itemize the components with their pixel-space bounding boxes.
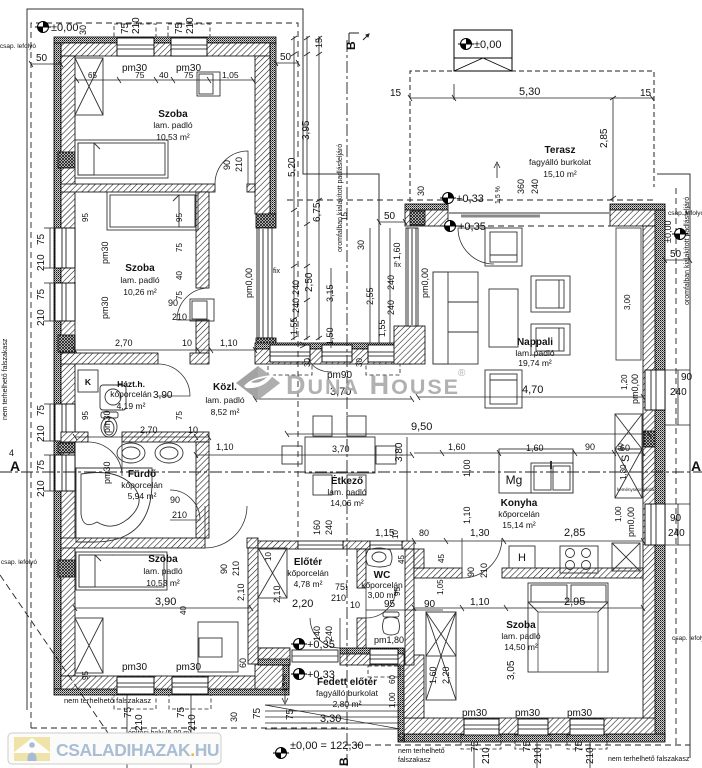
svg-text:50: 50: [384, 211, 396, 222]
svg-text:oromfalban kialakított padlásf: oromfalban kialakított padlásfeljáró: [337, 144, 344, 252]
svg-text:lam. padló: lam. padló: [501, 631, 540, 641]
svg-text:B: B: [344, 41, 358, 50]
svg-text:2,85: 2,85: [599, 128, 610, 148]
svg-text:pm30: pm30: [567, 708, 592, 719]
svg-text:2,80 m²: 2,80 m²: [333, 699, 362, 709]
svg-text:240: 240: [386, 275, 396, 290]
svg-text:210: 210: [36, 254, 47, 271]
svg-text:5,30: 5,30: [519, 86, 540, 98]
svg-text:75: 75: [175, 291, 184, 300]
svg-text:lam. padló: lam. padló: [327, 487, 366, 497]
svg-text:Szoba: Szoba: [506, 620, 536, 631]
svg-text:30: 30: [397, 733, 407, 743]
svg-text:pm30: pm30: [176, 63, 201, 74]
svg-text:95: 95: [81, 671, 90, 680]
svg-text:Közl.: Közl.: [213, 382, 237, 393]
svg-text:240: 240: [386, 300, 396, 315]
svg-text:75: 75: [522, 740, 533, 752]
svg-text:75: 75: [36, 288, 47, 300]
svg-text:+0,33: +0,33: [456, 193, 484, 205]
svg-text:3,70: 3,70: [332, 444, 350, 454]
svg-text:15: 15: [640, 88, 652, 99]
svg-text:1,10: 1,10: [470, 597, 490, 608]
svg-text:5,20: 5,20: [287, 157, 298, 177]
svg-text:15: 15: [314, 38, 324, 48]
svg-text:210: 210: [231, 561, 241, 576]
svg-text:K: K: [85, 377, 92, 387]
svg-text:210: 210: [481, 747, 492, 764]
svg-text:2,20: 2,20: [441, 666, 451, 684]
svg-text:pm30: pm30: [122, 63, 147, 74]
svg-text:75: 75: [120, 22, 131, 34]
svg-text:3,00: 3,00: [623, 294, 632, 310]
svg-text:1,80: 1,80: [619, 464, 628, 480]
svg-text:65: 65: [88, 71, 97, 80]
svg-text:csap. lefolyó: csap. lefolyó: [0, 43, 36, 50]
svg-text:210: 210: [131, 17, 142, 34]
svg-text:1,55: 1,55: [377, 319, 387, 337]
svg-text:1,60: 1,60: [392, 242, 402, 260]
svg-text:fagyálló burkolat: fagyálló burkolat: [316, 688, 379, 698]
svg-text:1,50: 1,50: [325, 327, 335, 345]
svg-text:90: 90: [585, 442, 595, 452]
svg-text:lam. padló: lam. padló: [153, 120, 192, 130]
svg-text:95: 95: [393, 587, 402, 596]
svg-text:±0,00: ±0,00: [663, 221, 673, 243]
svg-text:19,74 m²: 19,74 m²: [518, 358, 552, 368]
svg-text:1,30: 1,30: [470, 528, 490, 539]
svg-text:75: 75: [285, 708, 296, 720]
svg-text:30: 30: [303, 358, 312, 367]
svg-text:95: 95: [81, 411, 90, 420]
svg-text:40: 40: [179, 606, 188, 615]
svg-text:2,50: 2,50: [304, 272, 315, 292]
svg-text:pm0,00: pm0,00: [420, 268, 430, 298]
svg-text:30: 30: [78, 25, 88, 35]
svg-text:10,53 m²: 10,53 m²: [156, 132, 190, 142]
svg-text:1,60: 1,60: [428, 666, 438, 684]
svg-text:1,10: 1,10: [220, 338, 238, 348]
svg-text:4,19 m²: 4,19 m²: [117, 401, 146, 411]
svg-text:210: 210: [36, 425, 47, 442]
svg-text:14,50 m²: 14,50 m²: [504, 642, 538, 652]
svg-text:90: 90: [219, 564, 229, 574]
svg-text:csap. lefolyó: csap. lefolyó: [1, 559, 38, 566]
svg-text:CSALADIHAZAK.HU: CSALADIHAZAK.HU: [56, 740, 219, 760]
svg-text:pm30: pm30: [176, 662, 201, 673]
svg-text:75!: 75!: [335, 582, 348, 592]
svg-text:75: 75: [175, 243, 184, 252]
svg-text:1,05: 1,05: [222, 70, 239, 80]
svg-text:240: 240: [530, 179, 540, 194]
svg-text:75: 75: [123, 706, 134, 718]
svg-text:60: 60: [238, 658, 248, 668]
svg-text:nem terhelhető falszakasz: nem terhelhető falszakasz: [608, 756, 690, 763]
svg-text:lam. padló: lam. padló: [120, 275, 159, 285]
svg-text:fix: fix: [394, 262, 402, 269]
svg-text:pm30: pm30: [102, 410, 112, 433]
svg-text:50: 50: [280, 52, 292, 63]
svg-text:2,20: 2,20: [292, 598, 313, 610]
svg-text:9,50: 9,50: [411, 421, 432, 433]
svg-text:10: 10: [391, 530, 400, 539]
svg-text:75: 75: [176, 706, 187, 718]
svg-text:1,20: 1,20: [620, 374, 629, 390]
svg-text:210: 210: [533, 747, 544, 764]
svg-text:210: 210: [36, 309, 47, 326]
svg-text:lam. padló: lam. padló: [143, 566, 182, 576]
svg-text:75: 75: [470, 740, 481, 752]
svg-text:210: 210: [331, 593, 346, 603]
svg-text:3,30: 3,30: [320, 713, 341, 725]
svg-text:+0,35: +0,35: [307, 639, 335, 651]
svg-text:3,80: 3,80: [394, 442, 405, 462]
svg-text:2,55: 2,55: [365, 287, 375, 305]
svg-text:S: S: [620, 455, 632, 462]
svg-text:3,95: 3,95: [301, 120, 312, 140]
svg-text:210: 210: [172, 510, 187, 520]
svg-text:80: 80: [419, 528, 429, 538]
svg-text:pm30: pm30: [100, 296, 110, 319]
svg-text:Szoba: Szoba: [125, 263, 155, 274]
svg-text:210: 210: [185, 17, 196, 34]
svg-text:Házt.h.: Házt.h.: [117, 379, 145, 389]
svg-text:75: 75: [36, 459, 47, 471]
svg-text:75: 75: [175, 411, 184, 420]
svg-text:95: 95: [384, 599, 396, 610]
svg-text:pm0,00: pm0,00: [244, 268, 254, 298]
svg-text:fagyálló burkolat: fagyálló burkolat: [529, 157, 592, 167]
svg-text:45: 45: [437, 554, 446, 563]
svg-text:240: 240: [324, 520, 334, 535]
svg-text:±0,00 = 122,30: ±0,00 = 122,30: [290, 740, 364, 752]
svg-text:®: ®: [458, 368, 466, 379]
svg-text:lam. padló: lam. padló: [515, 348, 554, 358]
svg-text:240: 240: [291, 280, 301, 295]
svg-text:15: 15: [390, 88, 402, 99]
svg-text:90: 90: [222, 160, 232, 170]
svg-text:fix: fix: [273, 268, 281, 275]
svg-text:210: 210: [172, 312, 187, 322]
svg-text:5,94 m²: 5,94 m²: [128, 491, 157, 501]
svg-text:3,90: 3,90: [155, 596, 176, 608]
svg-text:nem terhelhető: nem terhelhető: [398, 748, 445, 755]
svg-text:3,05: 3,05: [506, 660, 517, 680]
svg-text:2,70: 2,70: [140, 425, 158, 435]
svg-text:+0,33: +0,33: [307, 669, 335, 681]
svg-text:10: 10: [264, 552, 273, 561]
svg-text:75: 75: [36, 233, 47, 245]
svg-text:Szoba: Szoba: [158, 109, 188, 120]
svg-text:30: 30: [229, 712, 239, 722]
svg-text:lam. padló: lam. padló: [205, 395, 244, 405]
svg-text:±0,00: ±0,00: [51, 22, 78, 34]
svg-text:1,60: 1,60: [448, 442, 466, 452]
svg-text:2,85: 2,85: [564, 527, 585, 539]
svg-text:B: B: [337, 757, 351, 766]
svg-text:Mg: Mg: [506, 473, 523, 487]
svg-text:1,00: 1,00: [614, 506, 623, 522]
svg-text:1,00: 1,00: [462, 459, 472, 477]
svg-text:pm1,80: pm1,80: [374, 635, 404, 645]
svg-text:pm30: pm30: [102, 461, 112, 484]
svg-text:nem terhelhető falszakasz: nem terhelhető falszakasz: [2, 338, 9, 420]
svg-text:Étkező: Étkező: [331, 474, 363, 487]
svg-text:2,95: 2,95: [564, 596, 585, 608]
svg-text:90: 90: [670, 513, 682, 524]
svg-text:1,00: 1,00: [388, 692, 397, 708]
svg-text:160: 160: [312, 520, 322, 535]
svg-text:50: 50: [670, 249, 682, 260]
svg-text:50: 50: [36, 53, 48, 64]
svg-text:kőporcelán: kőporcelán: [287, 568, 329, 578]
svg-text:kőporcelán: kőporcelán: [110, 389, 152, 399]
svg-text:csap. lefolyó: csap. lefolyó: [672, 635, 702, 642]
svg-text:30: 30: [355, 358, 364, 367]
svg-text:3,90: 3,90: [153, 390, 173, 401]
svg-text:30: 30: [356, 240, 366, 250]
svg-text:90: 90: [681, 372, 693, 383]
svg-text:1,60: 1,60: [526, 443, 544, 453]
svg-text:Konyha: Konyha: [501, 498, 538, 509]
svg-text:90: 90: [170, 495, 180, 505]
svg-text:40: 40: [175, 271, 184, 280]
svg-text:pm0,00: pm0,00: [626, 507, 636, 537]
svg-text:75: 75: [36, 404, 47, 416]
svg-text:2,70: 2,70: [115, 338, 133, 348]
svg-text:90: 90: [466, 567, 476, 577]
svg-text:A: A: [10, 458, 20, 474]
svg-text:14,06 m²: 14,06 m²: [330, 498, 364, 508]
svg-text:DUNA HOUSE: DUNA HOUSE: [286, 370, 460, 400]
svg-text:15,10 m²: 15,10 m²: [543, 169, 577, 179]
svg-text:1,10: 1,10: [216, 442, 234, 452]
svg-text:Terasz: Terasz: [545, 145, 576, 156]
svg-text:10,26 m²: 10,26 m²: [123, 287, 157, 297]
svg-text:pm30: pm30: [462, 708, 487, 719]
svg-text:240: 240: [670, 387, 687, 398]
svg-text:±0,00: ±0,00: [474, 39, 501, 51]
svg-text:40: 40: [159, 70, 169, 80]
svg-text:A: A: [691, 458, 701, 474]
svg-text:6,75: 6,75: [312, 202, 323, 222]
svg-text:pm30: pm30: [122, 662, 147, 673]
svg-text:4: 4: [9, 448, 14, 458]
svg-text:10: 10: [350, 600, 360, 610]
svg-text:Fürdő: Fürdő: [128, 469, 156, 480]
svg-text:360: 360: [516, 179, 526, 194]
svg-text:H: H: [518, 552, 526, 564]
svg-text:60: 60: [388, 675, 397, 684]
svg-text:60: 60: [618, 443, 625, 451]
svg-text:oromfalban kialakított padlásf: oromfalban kialakított padlásfeljáró: [684, 197, 691, 305]
svg-text:kőporcelán: kőporcelán: [121, 480, 163, 490]
svg-text:pm30: pm30: [100, 241, 110, 264]
svg-text:2,10: 2,10: [236, 583, 246, 601]
svg-text:95: 95: [175, 213, 184, 222]
svg-text:nem terhelhető falszakasz: nem terhelhető falszakasz: [64, 696, 151, 705]
svg-text:+0,35: +0,35: [458, 221, 486, 233]
svg-text:falszakasz: falszakasz: [398, 757, 431, 764]
svg-text:Szoba: Szoba: [148, 554, 178, 565]
svg-text:75: 75: [174, 22, 185, 34]
svg-text:210: 210: [479, 563, 489, 578]
svg-text:4,78 m²: 4,78 m²: [294, 579, 323, 589]
svg-text:210: 210: [134, 714, 145, 731]
svg-text:75: 75: [574, 740, 585, 752]
svg-text:210: 210: [187, 714, 198, 731]
svg-text:240: 240: [668, 528, 685, 539]
svg-text:10,53 m²: 10,53 m²: [146, 578, 180, 588]
svg-text:210: 210: [36, 480, 47, 497]
svg-text:1,5 %: 1,5 %: [495, 186, 502, 204]
svg-text:kőporcelán: kőporcelán: [498, 509, 540, 519]
svg-text:kéményseprőjárda: kéményseprőjárda: [617, 487, 655, 492]
svg-text:1,10: 1,10: [462, 506, 472, 524]
svg-text:Nappali: Nappali: [517, 337, 553, 348]
svg-text:45: 45: [397, 555, 406, 564]
svg-text:210: 210: [585, 747, 596, 764]
svg-text:2,10: 2,10: [272, 585, 282, 603]
svg-text:pm30: pm30: [515, 708, 540, 719]
svg-text:1,05: 1,05: [436, 579, 445, 595]
svg-text:pm0,00: pm0,00: [630, 374, 640, 404]
svg-text:95: 95: [81, 213, 90, 222]
svg-text:10: 10: [188, 425, 198, 435]
svg-text:90: 90: [424, 599, 436, 610]
svg-text:1,5 %: 1,5 %: [282, 674, 289, 692]
svg-text:1,55: 1,55: [289, 317, 299, 335]
svg-text:3,15: 3,15: [325, 284, 335, 302]
svg-text:10: 10: [182, 338, 192, 348]
svg-text:Előtér: Előtér: [294, 557, 322, 568]
svg-text:4,70: 4,70: [522, 384, 543, 396]
svg-text:30: 30: [416, 186, 426, 196]
svg-text:15,14 m²: 15,14 m²: [502, 520, 536, 530]
svg-text:240: 240: [291, 298, 301, 313]
svg-text:75: 75: [252, 707, 263, 719]
svg-text:210: 210: [234, 157, 244, 172]
svg-text:8,52 m²: 8,52 m²: [211, 407, 240, 417]
